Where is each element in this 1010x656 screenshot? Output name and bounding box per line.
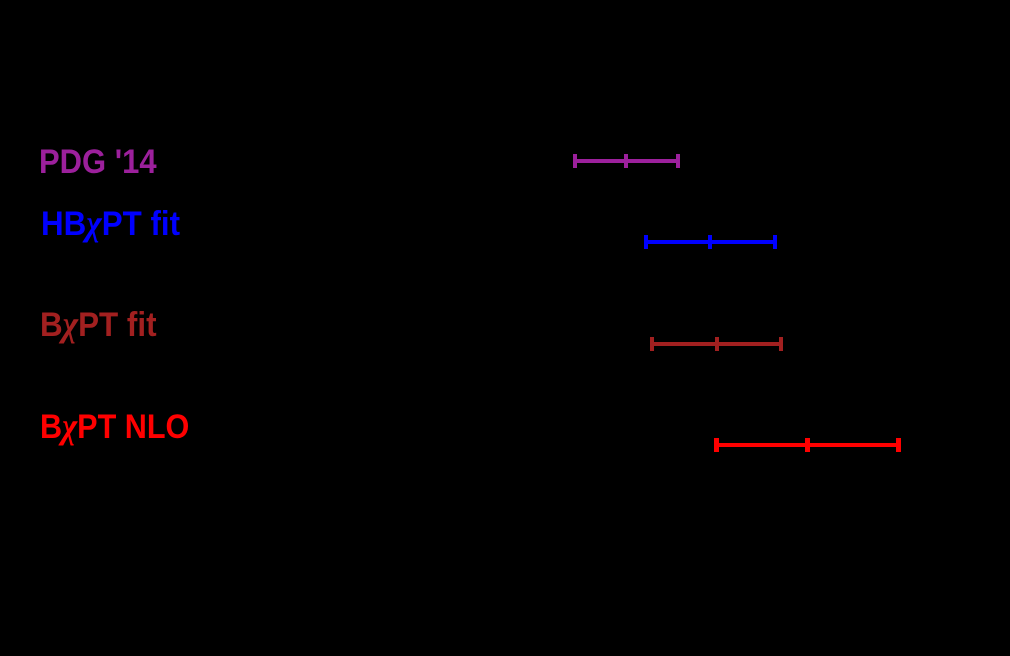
- label BχPT fit: [40, 306, 157, 342]
- errorbar PDG '14: [0, 0, 1010, 1]
- errorbar BχPT fit: [0, 0, 1010, 1]
- label PDG '14: [39, 145, 157, 179]
- label BχPT NLO: [40, 408, 189, 444]
- label HBχPT fit: [41, 205, 180, 241]
- errorbar HBχPT fit: [0, 0, 1010, 1]
- errorbar BχPT NLO: [0, 0, 1010, 1]
